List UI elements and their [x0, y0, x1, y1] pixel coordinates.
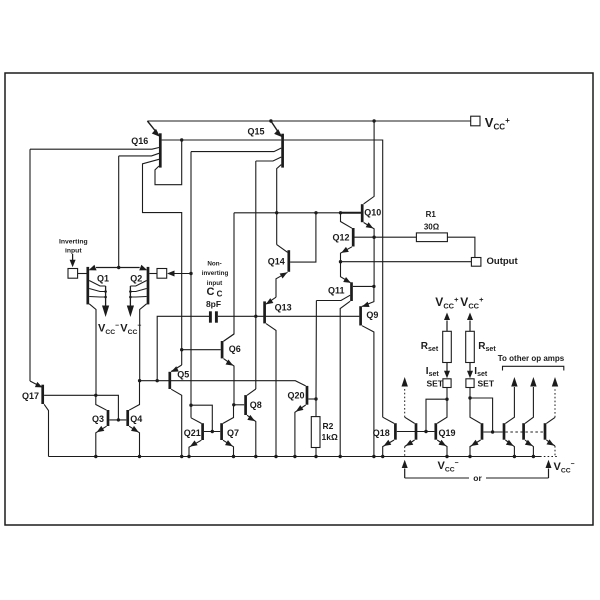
- transistor Q15 bar: [281, 134, 284, 168]
- arrow I_set 1: [444, 363, 450, 379]
- resistor R_set 1 body: [443, 331, 452, 362]
- wire R1 left: [374, 236, 416, 238]
- svg-text:Q18: Q18: [373, 428, 390, 438]
- node junctions Q2 collector bus: [129, 290, 132, 298]
- resistor R2 body: [311, 417, 320, 448]
- svg-text:Rset: Rset: [478, 341, 496, 353]
- svg-text:C C: C C: [207, 286, 223, 299]
- wire Q4 collector: [129, 381, 139, 411]
- node rail junction x=189: [187, 455, 190, 458]
- wire Q2 collector a: [130, 281, 146, 287]
- node junction pair emitters: [117, 266, 120, 269]
- wire Q3 collector: [96, 395, 107, 410]
- label Q18: [373, 428, 390, 438]
- transistor Q3 emitter: [96, 426, 107, 457]
- wire Q2 collector c: [130, 296, 146, 299]
- svg-text:8pF: 8pF: [206, 299, 221, 309]
- svg-text:Q21: Q21: [184, 428, 201, 438]
- node rail junction x=340.2: [339, 455, 342, 458]
- wire second-stage top line: [234, 212, 341, 214]
- label Q10: [364, 208, 381, 218]
- node junction Q14 base corner: [314, 211, 317, 214]
- svg-text:Q13: Q13: [275, 303, 292, 313]
- transistor Q12 bar: [352, 228, 355, 247]
- label Q9: [366, 310, 378, 320]
- svg-text:SET: SET: [427, 379, 444, 389]
- wire Q11 collector 2 to rail: [340, 301, 350, 456]
- wire Q15 base to right: [284, 140, 383, 417]
- svg-text:VCC+: VCC+: [460, 295, 484, 311]
- svg-text:Q1: Q1: [97, 274, 109, 284]
- transistor Q7 emitter: [223, 440, 234, 456]
- wire Q20 base: [308, 398, 316, 400]
- node rail junction x=276: [274, 455, 277, 458]
- node rail junction x=514.4: [513, 455, 516, 458]
- transistor T1 bar: [481, 423, 484, 440]
- transistor other-opamp emitter dotted: [405, 440, 415, 457]
- node junction output/Q12 emitter: [339, 260, 342, 263]
- transistor Q11 bar: [350, 282, 353, 301]
- transistor Q1 emitter arrow: [89, 265, 97, 271]
- terminal V_CC+ square: [471, 116, 480, 126]
- transistor Q1 bar: [86, 267, 89, 305]
- node rail junction x=139.5: [138, 455, 141, 458]
- label I_set 2: [474, 366, 488, 378]
- transistor Q19 emitter: [437, 440, 447, 457]
- label SET 2: [478, 379, 495, 389]
- wire Q6 base: [182, 349, 221, 351]
- wire Q16 collector 4 to base loop: [155, 141, 182, 185]
- label Q4: [130, 414, 142, 424]
- label Q2: [130, 274, 142, 284]
- wire Q11 base: [353, 285, 374, 287]
- capacitor C_C plates: [210, 311, 216, 322]
- node junction Q15c3/Q14 collector: [275, 211, 278, 214]
- node rail junction x=233.5: [232, 455, 235, 458]
- svg-text:input: input: [65, 247, 82, 254]
- wire vertical to input pair emitters: [118, 156, 120, 268]
- svg-text:To other op amps: To other op amps: [498, 354, 565, 363]
- transistor Q3 bar: [107, 410, 110, 426]
- transistor Q21 collector: [191, 418, 201, 424]
- transistor Q6 bar: [221, 341, 224, 358]
- svg-text:Iset: Iset: [474, 366, 488, 378]
- label To other op amps: [498, 354, 565, 363]
- transistor Q7 bar: [220, 423, 223, 440]
- svg-text:Q6: Q6: [229, 344, 241, 354]
- transistor Q21 emitter: [189, 440, 201, 456]
- label Q6: [229, 344, 241, 354]
- label Q14: [268, 257, 285, 267]
- svg-text:VCC−: VCC−: [98, 323, 119, 337]
- svg-text:Inverting: Inverting: [59, 238, 88, 245]
- transistor Q12 collector: [341, 213, 352, 228]
- wire first-stage output line: [140, 381, 306, 386]
- wire SET2 square to node: [469, 388, 471, 399]
- transistor Q16 emitter: [147, 121, 160, 137]
- wire top V_CC+ rail: [147, 120, 470, 122]
- node rail junction x=373.9: [372, 455, 375, 458]
- label I_set 1: [426, 366, 440, 378]
- svg-text:VCC+: VCC+: [435, 295, 459, 311]
- transistor Q4 emitter: [129, 426, 139, 457]
- transistor Q9 emitter: [362, 286, 374, 307]
- wire Q1 collector c: [89, 296, 105, 299]
- wire R2 bottom: [315, 448, 317, 457]
- svg-text:30Ω: 30Ω: [424, 223, 440, 232]
- wire vertical Q15c2 to Q8 collector: [255, 161, 257, 389]
- node rail junction x=533.4: [532, 455, 535, 458]
- label R2: [323, 421, 334, 431]
- svg-text:Q5: Q5: [177, 370, 189, 380]
- label or: [469, 472, 486, 484]
- wire vertical to Q11 base node: [373, 237, 375, 286]
- wire Q1 collector bus: [105, 286, 107, 306]
- svg-text:Output: Output: [487, 256, 519, 267]
- svg-text:Q11: Q11: [328, 286, 345, 296]
- label inverting: [202, 270, 229, 277]
- svg-text:Q4: Q4: [130, 414, 142, 424]
- label Q8: [250, 400, 262, 410]
- svg-text:VCC−: VCC−: [438, 460, 459, 474]
- label 1kOhm: [322, 432, 338, 442]
- wire C_C left / Q5 base riser: [157, 316, 209, 381]
- label R_set 2: [478, 341, 496, 353]
- transistor Q15 emitter: [271, 121, 283, 137]
- arrow T3 to other op amps: [530, 377, 536, 387]
- label Q7: [227, 428, 239, 438]
- svg-text:SET: SET: [478, 379, 495, 389]
- wire V_CC- rail: [49, 456, 541, 458]
- arrow or-left up: [402, 460, 408, 478]
- wire left vertical to Q17 emitter: [29, 149, 31, 381]
- label V_CC+: [485, 115, 510, 132]
- wire output line: [341, 261, 472, 263]
- svg-text:or: or: [473, 473, 482, 483]
- node rail junction x=181.7: [180, 455, 183, 458]
- label R1: [426, 210, 437, 219]
- transistor Q12 emitter: [341, 247, 352, 262]
- terminal Output square: [471, 258, 481, 267]
- wire Q1 collector a: [89, 281, 105, 287]
- svg-text:Q20: Q20: [288, 391, 305, 401]
- label Q19: [439, 428, 456, 438]
- node junction C_C/Q8 collector: [254, 315, 257, 318]
- label V_CC- bottom right: [554, 461, 575, 475]
- wire Q2 collector b: [130, 289, 146, 292]
- wire Q2 base to square: [149, 273, 157, 275]
- label Q21: [184, 428, 201, 438]
- label Output: [487, 256, 519, 267]
- arrow V_CC+ 1: [444, 313, 450, 332]
- svg-text:Q2: Q2: [130, 274, 142, 284]
- transistor Q13 bar: [263, 301, 266, 323]
- transistor Q14 collector: [277, 245, 288, 253]
- label Q20: [288, 391, 305, 401]
- node junction Q4 collector line: [138, 379, 141, 382]
- svg-text:Rset: Rset: [421, 341, 439, 353]
- wire Q2 collector bus: [129, 286, 131, 306]
- label V_CC+ 1: [435, 295, 459, 311]
- svg-text:Q9: Q9: [366, 310, 378, 320]
- transistor Q13 emitter: [266, 297, 276, 304]
- label V_CC- near Q19: [438, 460, 459, 474]
- transistor Q5 emitter: [171, 365, 182, 372]
- label Q1: [97, 274, 109, 284]
- svg-text:1kΩ: 1kΩ: [322, 432, 338, 442]
- node junction SET2 node: [468, 396, 471, 399]
- transistor Q10 collector: [364, 121, 375, 204]
- wire inv square to Q1 base: [78, 273, 87, 275]
- wire Q15 collector 2: [256, 157, 281, 161]
- terminal SET square 2: [466, 379, 474, 388]
- resistor R1 body: [416, 233, 447, 242]
- transistor T1 collector: [470, 398, 481, 423]
- transistor Q19 bar: [434, 423, 437, 440]
- transistor Q19 collector: [437, 399, 447, 423]
- node junction base/collector4 of Q16: [180, 138, 183, 141]
- transistor Q9 bar: [359, 306, 362, 325]
- wire other-opamp collector dotted: [405, 387, 415, 423]
- svg-text:VCC−: VCC−: [120, 323, 141, 337]
- wire Q9 collector to rail: [362, 326, 374, 457]
- label Q13: [275, 303, 292, 313]
- wire Q1 collector 4: [89, 304, 96, 396]
- svg-text:Q17: Q17: [22, 391, 39, 401]
- label Inverting: [59, 238, 88, 245]
- transistor Q10 emitter: [364, 222, 375, 237]
- wire R1 right to Output: [447, 237, 475, 257]
- node junction Q15 emitter on rail: [269, 119, 272, 122]
- wire Q3-Q4 base: [109, 419, 126, 421]
- wire Q21 base loop: [191, 405, 212, 431]
- node junction Q20 base/R2: [314, 397, 317, 400]
- node junction Q11 base/Q9 emitter: [372, 285, 375, 288]
- node junction C_C riser: [156, 379, 159, 382]
- label Q15: [248, 127, 265, 137]
- node junction Q1c4/Q3 collector: [94, 394, 97, 397]
- node rail junction x=255.8: [254, 455, 257, 458]
- node junction Q21 base loop tap: [189, 404, 192, 407]
- wire Q12 base: [355, 236, 375, 238]
- wire Q21-Q7 base line: [204, 431, 220, 433]
- arrow non-inverting input: [167, 271, 191, 277]
- svg-text:Q14: Q14: [268, 257, 285, 267]
- wire SET2 drop: [470, 398, 493, 432]
- label SET 1: [427, 379, 444, 389]
- arrow T4 to other op amps: [552, 377, 558, 387]
- arrow or-right up: [546, 460, 552, 478]
- wire Q16 collector 3: [143, 159, 182, 365]
- svg-text:Iset: Iset: [426, 366, 440, 378]
- label Q17: [22, 391, 39, 401]
- wire Q14 base: [290, 213, 316, 262]
- wire Q16 collector 2: [119, 153, 159, 156]
- transistor T4 emitter dotted: [546, 439, 555, 456]
- transistor Q21 bar: [201, 423, 204, 440]
- arrow I_set 2: [467, 363, 473, 379]
- node junction Q6e/Q7c/Q8 base: [232, 403, 235, 406]
- wire Q2 collector 4: [140, 304, 147, 381]
- wire Q13 collector to rail: [266, 324, 276, 457]
- terminal non-inverting input square: [157, 269, 167, 279]
- transistor Q16 bar: [159, 133, 162, 167]
- node rail junction x=95.8: [94, 455, 97, 458]
- arrow Q1 to V_CC-: [102, 306, 109, 318]
- wire Q8 base: [234, 404, 244, 406]
- label R_set 1: [421, 341, 439, 353]
- wire rail dotted extension: [540, 456, 558, 458]
- wire Q5 collector to rail: [171, 389, 182, 456]
- node rail junction x=316: [314, 455, 317, 458]
- node junction SET drop on base line: [424, 430, 427, 433]
- transistor Q17 emitter: [30, 381, 42, 387]
- label C_C: [207, 286, 223, 299]
- transistor T3 collector: [525, 387, 533, 423]
- svg-text:Q19: Q19: [439, 428, 456, 438]
- svg-text:VCC+: VCC+: [485, 115, 510, 132]
- node junction SET node: [445, 398, 448, 401]
- transistor Q10 bar: [361, 204, 364, 222]
- terminal inverting input square: [68, 269, 78, 279]
- svg-text:Q7: Q7: [227, 428, 239, 438]
- label 8pF: [206, 299, 221, 309]
- transistor Q6 emitter: [224, 359, 235, 405]
- label input(inv): [65, 247, 82, 254]
- transistor T2 collector: [505, 387, 514, 423]
- svg-text:Q12: Q12: [333, 233, 350, 243]
- node rail junction x=294.9: [293, 455, 296, 458]
- label 30Ohm: [424, 223, 440, 232]
- bracket to other op amps: [503, 366, 564, 370]
- svg-text:R1: R1: [426, 210, 437, 219]
- transistor Q8 emitter: [247, 415, 256, 457]
- node junction Q21/Q7 bases: [211, 430, 214, 433]
- transistor Q4 bar: [126, 410, 129, 426]
- transistor Q2 emitter arrow: [139, 265, 147, 271]
- wire Q11 collector1 / R2 top: [315, 301, 317, 417]
- wire Q16 collector 1 to left: [30, 148, 159, 150]
- wire Q16-Q15 base line: [162, 139, 282, 141]
- node rail junction x=382.7: [381, 455, 384, 458]
- transistor T4 collector dotted: [546, 387, 555, 423]
- transistor T2 emitter: [505, 440, 514, 457]
- wire Q18 collector riser: [383, 417, 394, 423]
- wire Q17 base: [44, 395, 118, 420]
- transistor Q14 emitter: [276, 272, 288, 297]
- transistor Q20 emitter: [295, 405, 306, 457]
- transistor other-opamp bar (left): [415, 423, 418, 440]
- transistor Q14 bar: [287, 250, 290, 272]
- node junction right base line: [491, 430, 494, 433]
- wire Q10 base (bold): [341, 212, 362, 214]
- svg-text:Q8: Q8: [250, 400, 262, 410]
- arrow V_CC+ 2: [467, 313, 473, 332]
- transistor Q2 bar: [147, 267, 150, 305]
- border frame: [5, 73, 593, 525]
- arrow Q2 to V_CC-: [127, 306, 134, 318]
- node junction non-inverting input tap: [189, 272, 192, 275]
- svg-text:Non-: Non-: [207, 260, 221, 267]
- label V_CC+ 2: [460, 295, 484, 311]
- arrow other-opamp collector up: [402, 377, 408, 387]
- resistor R_set 2 body: [466, 331, 475, 362]
- label V_CC- left: [98, 323, 119, 337]
- node junctions Q1 collector bus: [104, 290, 107, 298]
- arrow T2 to other op amps: [511, 377, 517, 387]
- wire SET drop: [426, 399, 447, 431]
- svg-text:R2: R2: [323, 421, 334, 431]
- wire long vertical non-inverting input / Q21 collector: [190, 152, 192, 418]
- wire Q15 collector 3: [277, 165, 282, 245]
- wire right base line dashed: [505, 431, 543, 433]
- wire right base line solid: [483, 431, 502, 433]
- transistor T4 bar: [544, 423, 547, 440]
- node rail junction x=447: [445, 455, 448, 458]
- terminal SET square 1: [443, 379, 451, 388]
- wire Q1 collector b: [89, 289, 105, 292]
- transistor Q7 collector: [223, 405, 234, 424]
- transistor Q8 collector: [247, 389, 256, 395]
- transistor T2 bar: [503, 423, 506, 440]
- transistor Q5 bar: [168, 372, 171, 389]
- wire Q18-Q19 base line: [397, 431, 435, 433]
- transistor Q18 bar: [394, 423, 397, 440]
- transistor Q11 emitter: [341, 262, 351, 283]
- arrow inverting input: [70, 254, 76, 267]
- label input: [207, 280, 223, 287]
- label Non-: [207, 260, 221, 267]
- transistor Q20 bar: [306, 386, 309, 405]
- label V_CC- right: [120, 323, 141, 337]
- transistor Q17 bar: [41, 385, 44, 404]
- transistor T3 bar: [522, 423, 525, 440]
- svg-text:VCC−: VCC−: [554, 461, 575, 475]
- svg-text:Q10: Q10: [364, 208, 381, 218]
- svg-text:Q16: Q16: [131, 136, 148, 146]
- transistor T1 emitter: [470, 440, 481, 457]
- svg-text:Q15: Q15: [248, 127, 265, 137]
- transistor Q6 collector: [224, 334, 235, 341]
- transistor Q8 bar: [244, 395, 247, 415]
- svg-text:Q3: Q3: [92, 414, 104, 424]
- wire C_C right to Q13/Q9 base: [218, 315, 360, 317]
- node junction Q6 base on collector-3 line: [180, 348, 183, 351]
- wire input pair emitter node: [96, 267, 140, 269]
- wire Q17 collector: [44, 404, 48, 456]
- label Q11: [328, 286, 345, 296]
- wire Q6 collector vertical: [224, 213, 234, 341]
- label Q12: [333, 233, 350, 243]
- node junction Q12 collector: [339, 211, 342, 214]
- svg-text:inverting: inverting: [202, 270, 229, 277]
- label Q3: [92, 414, 104, 424]
- node junction bases/Q17 base: [117, 418, 120, 421]
- node junction Q10 emitter/R1/Q12 base: [372, 236, 375, 239]
- transistor Q18 emitter: [383, 440, 394, 457]
- wire Q15 collector 1: [191, 148, 281, 152]
- wire or-line: [405, 477, 549, 479]
- node junction Q10 collector on rail: [372, 119, 375, 122]
- wire SET square to node: [446, 388, 448, 400]
- transistor T3 emitter: [525, 440, 533, 457]
- label Q16: [131, 136, 148, 146]
- node rail junction x=470: [468, 455, 471, 458]
- label Q5: [177, 370, 189, 380]
- wire Q11 collector 1: [316, 295, 350, 300]
